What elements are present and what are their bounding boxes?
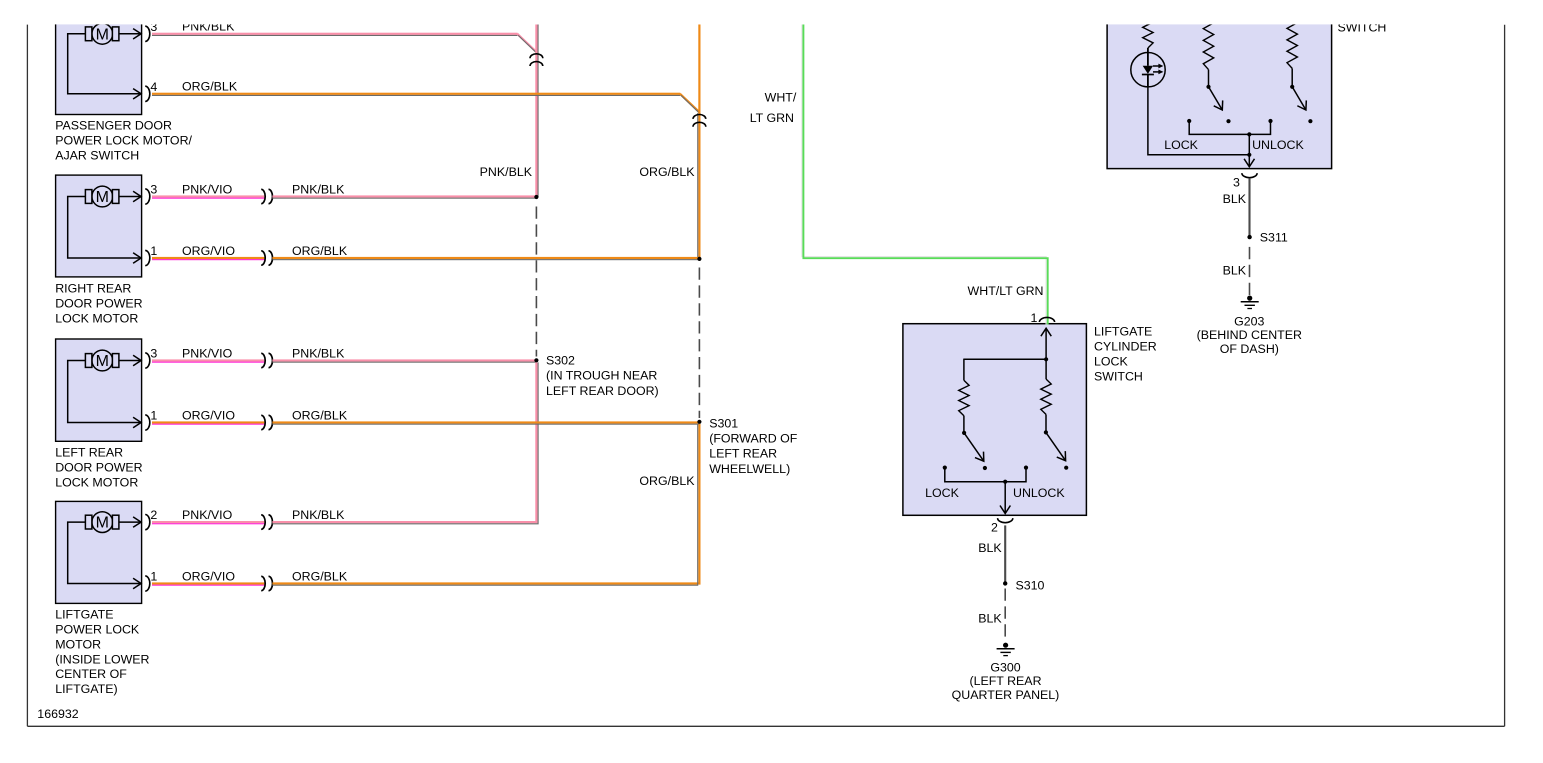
- switch box: door lock switch (top right, clipped): [1107, 14, 1332, 169]
- svg-text:PNK/BLK: PNK/BLK: [292, 508, 345, 522]
- svg-text:2: 2: [991, 520, 998, 534]
- dashed wire: S311 to ground G203: [1249, 247, 1251, 295]
- node: PNK/BLK trunk junction: [534, 195, 538, 199]
- wire: liftgate pin1 ORG/VIO + connector + ORG/BLK riser to S301: [152, 424, 699, 591]
- svg-text:WHT/LT GRN: WHT/LT GRN: [968, 284, 1044, 298]
- LED indicator (top right switch): [1131, 48, 1165, 87]
- svg-text:WHEELWELL): WHEELWELL): [709, 462, 790, 476]
- label: passenger door box name: [55, 119, 192, 163]
- wire: ORG/BLK vertical trunk upper: [697, 24, 700, 259]
- svg-text:(LEFT REAR: (LEFT REAR: [969, 674, 1041, 688]
- svg-text:LOCK: LOCK: [1094, 354, 1128, 368]
- svg-text:166932: 166932: [37, 707, 78, 721]
- svg-text:LT GRN: LT GRN: [750, 111, 794, 125]
- wire: LED leg down and across: [1148, 87, 1249, 155]
- label: liftgate motor box name: [55, 608, 149, 697]
- svg-text:PNK/BLK: PNK/BLK: [480, 165, 533, 179]
- svg-text:LIFTGATE: LIFTGATE: [1094, 324, 1152, 338]
- svg-text:RIGHT REAR: RIGHT REAR: [55, 282, 131, 296]
- svg-text:(FORWARD OF: (FORWARD OF: [709, 432, 798, 446]
- svg-text:3: 3: [150, 183, 157, 197]
- svg-text:3: 3: [1233, 175, 1240, 189]
- node: ORG/BLK trunk junction: [697, 257, 701, 261]
- svg-text:1: 1: [150, 409, 157, 423]
- svg-text:CYLINDER: CYLINDER: [1094, 339, 1157, 353]
- svg-text:(IN TROUGH NEAR: (IN TROUGH NEAR: [546, 369, 657, 383]
- svg-text:ORG/BLK: ORG/BLK: [182, 80, 238, 94]
- svg-text:LOCK: LOCK: [1164, 138, 1198, 152]
- svg-text:WHT/: WHT/: [765, 90, 797, 104]
- wire: R2 to switch pivot: [1208, 70, 1210, 86]
- dashed wire: splice feed to S302: [535, 207, 537, 357]
- svg-text:SWITCH: SWITCH: [1094, 369, 1143, 383]
- ground G300: [997, 643, 1015, 656]
- entry arrow pin1 (liftgate cylinder lock switch): [1045, 328, 1047, 359]
- switch arm: unlock (top right switch): [1290, 85, 1312, 124]
- motor box: right rear door power lock motor: [56, 175, 150, 277]
- svg-text:2: 2: [150, 508, 157, 522]
- svg-text:BLK: BLK: [978, 612, 1002, 626]
- frame bottom border: [27, 725, 1504, 727]
- svg-text:PASSENGER DOOR: PASSENGER DOOR: [55, 119, 172, 133]
- svg-text:BLK: BLK: [1223, 192, 1247, 206]
- svg-text:(INSIDE LOWER: (INSIDE LOWER: [55, 652, 149, 666]
- svg-text:UNLOCK: UNLOCK: [1013, 486, 1065, 500]
- label: G300 ground: [952, 660, 1060, 702]
- svg-text:ORG/VIO: ORG/VIO: [182, 569, 235, 583]
- frame right border: [1504, 25, 1506, 727]
- wire: PNK/BLK vertical trunk upper: [535, 24, 538, 197]
- svg-text:ORG/VIO: ORG/VIO: [182, 408, 235, 422]
- node: LED leg junction: [1247, 153, 1251, 157]
- label: S302 splice: [546, 353, 659, 397]
- svg-text:LIFTGATE: LIFTGATE: [55, 608, 113, 622]
- resistor (lock leg, cylinder switch): [959, 380, 969, 415]
- svg-text:ORG/BLK: ORG/BLK: [292, 408, 348, 422]
- svg-text:MOTOR: MOTOR: [55, 637, 101, 651]
- resistor R1 (LED leg, top right switch): [1143, 17, 1153, 48]
- label: left rear box name: [55, 446, 142, 490]
- svg-text:PNK/VIO: PNK/VIO: [182, 346, 233, 360]
- svg-text:DOOR POWER: DOOR POWER: [55, 460, 142, 474]
- wire: BLK from cylinder switch pin 2 to S310: [1004, 525, 1006, 583]
- svg-text:1: 1: [1031, 311, 1038, 325]
- svg-text:(BEHIND CENTER: (BEHIND CENTER: [1197, 328, 1302, 342]
- resistor (unlock leg, cylinder switch): [1041, 379, 1051, 414]
- resistor R3 (unlock leg): [1287, 17, 1297, 68]
- label: G203 ground: [1197, 314, 1302, 356]
- svg-text:S301: S301: [709, 416, 738, 430]
- svg-text:S311: S311: [1260, 231, 1288, 245]
- svg-text:PNK/BLK: PNK/BLK: [292, 182, 345, 196]
- wire labels row3: [182, 182, 345, 196]
- svg-text:1: 1: [150, 244, 157, 258]
- svg-text:POWER LOCK: POWER LOCK: [55, 623, 140, 637]
- svg-text:LEFT REAR: LEFT REAR: [55, 446, 123, 460]
- wire: switch output with exit arrow: [1248, 134, 1250, 166]
- svg-text:LOCK: LOCK: [925, 486, 959, 500]
- svg-text:ORG/BLK: ORG/BLK: [292, 569, 348, 583]
- break symbol on ORG/BLK trunk: [693, 115, 706, 127]
- node: bracket junction (cylinder switch): [1003, 480, 1007, 484]
- motor box: passenger door power lock motor / ajar switch: [56, 13, 150, 115]
- svg-text:PNK/VIO: PNK/VIO: [182, 182, 233, 196]
- splice S310: [1003, 581, 1007, 585]
- svg-text:CENTER OF: CENTER OF: [55, 667, 127, 681]
- svg-text:ORG/BLK: ORG/BLK: [639, 474, 695, 488]
- motor box: liftgate power lock motor: [56, 501, 150, 603]
- ground G203: [1241, 296, 1259, 309]
- svg-text:PNK/VIO: PNK/VIO: [182, 508, 233, 522]
- label: liftgate cylinder lock switch name: [1094, 324, 1157, 383]
- svg-text:1: 1: [150, 570, 157, 584]
- switch arm: lock (top right switch): [1206, 85, 1230, 124]
- wire labels row4: [182, 244, 348, 258]
- splice S302: [534, 358, 538, 362]
- svg-text:M: M: [96, 26, 109, 43]
- svg-text:ORG/BLK: ORG/BLK: [639, 165, 695, 179]
- svg-text:M: M: [96, 353, 109, 370]
- node: bracket junction: [1247, 132, 1251, 136]
- pin arc below cylinder switch: [998, 518, 1013, 523]
- svg-text:PNK/BLK: PNK/BLK: [292, 346, 345, 360]
- svg-text:G300: G300: [990, 660, 1020, 674]
- pin arc below top right switch: [1242, 173, 1257, 178]
- svg-text:LOCK MOTOR: LOCK MOTOR: [55, 475, 138, 489]
- wire: liftgate pin2 PNK/VIO + connector + PNK/BLK riser to S302: [152, 362, 538, 529]
- wire labels row5: [182, 346, 345, 360]
- svg-text:LOCK MOTOR: LOCK MOTOR: [55, 311, 138, 325]
- wire: R3 to switch pivot: [1291, 68, 1293, 85]
- top clip band (viewport edge): [0, 0, 1543, 24]
- svg-text:POWER LOCK MOTOR/: POWER LOCK MOTOR/: [55, 133, 192, 147]
- wire labels row6: [182, 408, 348, 422]
- svg-text:S310: S310: [1016, 579, 1045, 593]
- switch arm: lock (cylinder switch): [962, 431, 987, 470]
- label: S301 splice: [709, 416, 798, 476]
- svg-text:M: M: [96, 515, 109, 532]
- svg-text:ORG/BLK: ORG/BLK: [292, 244, 348, 258]
- node: cylinder switch feed junction: [1044, 357, 1048, 361]
- wire: resistor to pivot: [963, 416, 965, 432]
- wire: BLK from switch pin 3 to S311: [1248, 179, 1250, 238]
- wire label WHT/ LT GRN vertical run: [750, 90, 797, 125]
- wire: passenger pin3 PNK/BLK horizontal: [152, 33, 538, 55]
- svg-text:LIFTGATE): LIFTGATE): [55, 682, 117, 696]
- svg-text:ORG/VIO: ORG/VIO: [182, 244, 235, 258]
- svg-text:S302: S302: [546, 353, 575, 367]
- wire: lock leg down: [963, 359, 965, 381]
- svg-text:LEFT REAR DOOR): LEFT REAR DOOR): [546, 384, 659, 398]
- pin arc above liftgate cylinder switch: [1039, 317, 1054, 322]
- wire: passenger pin4 ORG/BLK horizontal: [152, 93, 701, 115]
- label: right rear box name: [55, 282, 142, 326]
- dashed wire: S310 to ground G300: [1004, 589, 1006, 642]
- wire: feed across to lock leg: [964, 358, 1046, 360]
- contact bracket (top right switch): [1187, 119, 1273, 134]
- wire: resistor to pivot: [1045, 414, 1047, 431]
- wire: WHT/LT GRN to liftgate cylinder lock switch: [802, 24, 1048, 324]
- splice S311: [1247, 235, 1251, 239]
- switch arm: unlock (cylinder switch): [1044, 430, 1068, 470]
- frame left border: [26, 25, 28, 727]
- svg-text:DOOR POWER: DOOR POWER: [55, 297, 142, 311]
- svg-text:UNLOCK: UNLOCK: [1252, 138, 1304, 152]
- svg-text:M: M: [96, 189, 109, 206]
- wire: unlock leg down: [1045, 359, 1047, 379]
- svg-text:QUARTER PANEL): QUARTER PANEL): [952, 688, 1060, 702]
- switch box: liftgate cylinder lock switch U-box: [903, 324, 1087, 516]
- splice S301: [697, 420, 701, 424]
- svg-text:BLK: BLK: [1223, 264, 1247, 278]
- resistor R2 (lock leg): [1203, 17, 1213, 70]
- wire labels row7: [182, 508, 345, 522]
- svg-text:BLK: BLK: [978, 541, 1002, 555]
- svg-text:4: 4: [150, 80, 157, 94]
- svg-text:OF DASH): OF DASH): [1220, 342, 1279, 356]
- svg-text:LEFT REAR: LEFT REAR: [709, 447, 777, 461]
- svg-text:3: 3: [150, 347, 157, 361]
- wire labels row8: [182, 569, 348, 583]
- dashed wire: splice feed to S301: [698, 268, 700, 419]
- svg-text:AJAR SWITCH: AJAR SWITCH: [55, 148, 139, 162]
- wire: cylinder switch output with exit arrow: [1004, 482, 1006, 514]
- break symbol on PNK/BLK trunk: [530, 54, 543, 66]
- motor box: left rear door power lock motor: [56, 339, 150, 441]
- contact bracket (cylinder switch): [943, 466, 1028, 482]
- svg-text:G203: G203: [1234, 314, 1264, 328]
